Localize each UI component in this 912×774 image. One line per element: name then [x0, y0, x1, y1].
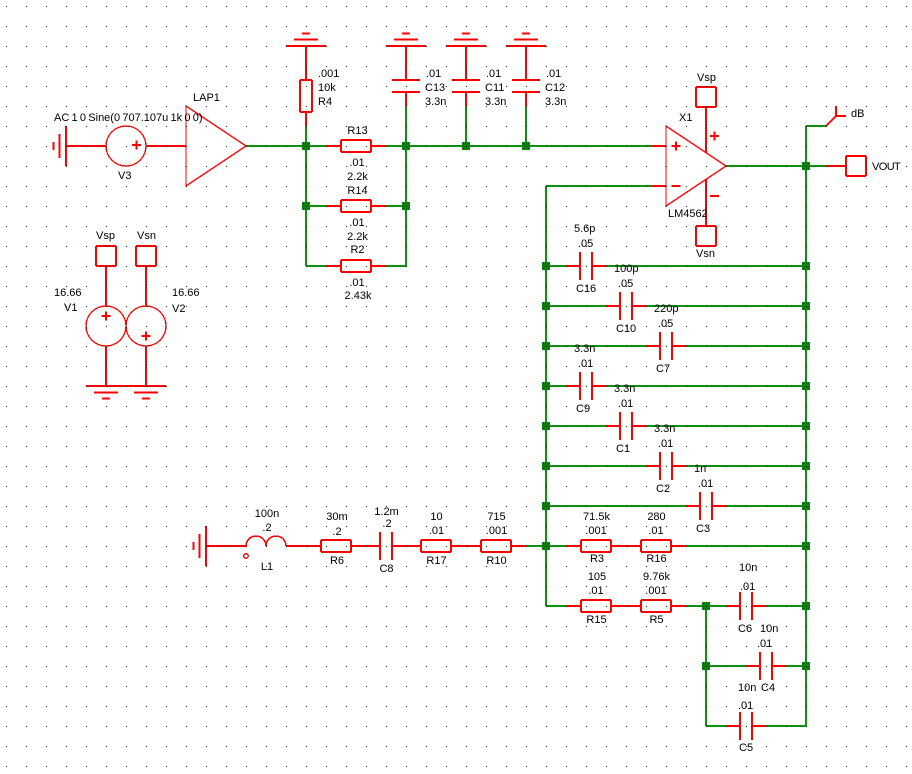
svg-text:V2: V2 [172, 303, 185, 315]
svg-text:.01: .01 [486, 68, 501, 80]
svg-text:R4: R4 [318, 96, 332, 108]
svg-text:C7: C7 [656, 363, 670, 375]
svg-text:LM4562: LM4562 [668, 208, 708, 220]
svg-text:3.3n: 3.3n [574, 343, 595, 355]
svg-text:.01: .01 [426, 68, 441, 80]
svg-text:715: 715 [487, 511, 505, 523]
svg-text:V1: V1 [64, 302, 77, 314]
svg-text:R16: R16 [646, 553, 666, 565]
svg-text:.05: .05 [618, 278, 633, 290]
svg-text:R3: R3 [590, 553, 604, 565]
svg-text:.001: .001 [486, 525, 507, 537]
svg-text:.05: .05 [578, 238, 593, 250]
svg-text:10k: 10k [318, 82, 336, 94]
svg-text:.01: .01 [740, 581, 755, 593]
svg-text:30m: 30m [326, 511, 347, 523]
svg-text:.01: .01 [349, 277, 364, 289]
svg-text:C3: C3 [696, 523, 710, 535]
svg-text:3.3n: 3.3n [425, 96, 446, 108]
svg-text:.2: .2 [382, 518, 391, 530]
svg-text:.01: .01 [588, 585, 603, 597]
svg-text:2.43k: 2.43k [345, 290, 372, 302]
svg-text:Vsn: Vsn [696, 248, 715, 260]
svg-text:C8: C8 [379, 563, 393, 575]
svg-text:L1: L1 [261, 561, 273, 573]
svg-text:.01: .01 [349, 217, 364, 229]
svg-text:dB: dB [851, 108, 864, 120]
svg-text:C5: C5 [739, 742, 753, 754]
svg-text:.01: .01 [546, 68, 561, 80]
svg-text:.01: .01 [648, 525, 663, 537]
svg-text:10: 10 [430, 511, 442, 523]
svg-text:3.3n: 3.3n [485, 96, 506, 108]
svg-text:.001: .001 [645, 585, 666, 597]
svg-text:.001: .001 [585, 525, 606, 537]
svg-text:1n: 1n [694, 463, 706, 475]
svg-text:.001: .001 [318, 68, 339, 80]
svg-text:.01: .01 [578, 358, 593, 370]
svg-text:C12: C12 [545, 82, 565, 94]
svg-text:105: 105 [588, 571, 606, 583]
svg-text:.01: .01 [738, 700, 753, 712]
svg-text:9.76k: 9.76k [643, 571, 670, 583]
svg-text:Vsp: Vsp [96, 230, 115, 242]
svg-text:R15: R15 [586, 614, 606, 626]
svg-text:2.2k: 2.2k [347, 171, 368, 183]
svg-text:3.3n: 3.3n [614, 383, 635, 395]
svg-text:.01: .01 [658, 438, 673, 450]
svg-text:100p: 100p [614, 263, 638, 275]
svg-text:10n: 10n [738, 682, 756, 694]
svg-text:.2: .2 [262, 522, 271, 534]
svg-text:10n: 10n [760, 623, 778, 635]
svg-text:C13: C13 [425, 82, 445, 94]
svg-text:LAP1: LAP1 [193, 92, 220, 104]
svg-text:R6: R6 [330, 555, 344, 567]
svg-text:AC 1 0 Sine(0 707.107u 1k 0 0): AC 1 0 Sine(0 707.107u 1k 0 0) [54, 112, 203, 124]
svg-text:C2: C2 [656, 483, 670, 495]
svg-text:C4: C4 [761, 682, 775, 694]
svg-text:X1: X1 [679, 112, 692, 124]
svg-text:C16: C16 [576, 283, 596, 295]
svg-text:1.2m: 1.2m [374, 506, 398, 518]
svg-text:C1: C1 [616, 443, 630, 455]
svg-text:.01: .01 [429, 525, 444, 537]
svg-text:R14: R14 [347, 185, 367, 197]
svg-text:.01: .01 [698, 478, 713, 490]
svg-text:R13: R13 [347, 125, 367, 137]
svg-text:16.66: 16.66 [54, 287, 82, 299]
svg-text:3.3n: 3.3n [545, 96, 566, 108]
svg-text:VOUT: VOUT [872, 161, 901, 173]
svg-text:3.3n: 3.3n [654, 423, 675, 435]
svg-text:R17: R17 [426, 555, 446, 567]
svg-text:.05: .05 [658, 318, 673, 330]
svg-text:5.6p: 5.6p [574, 223, 595, 235]
svg-text:R10: R10 [486, 555, 506, 567]
svg-text:2.2k: 2.2k [347, 231, 368, 243]
svg-text:V3: V3 [118, 170, 131, 182]
svg-text:.01: .01 [618, 398, 633, 410]
svg-text:Vsp: Vsp [697, 72, 716, 84]
svg-text:C6: C6 [738, 623, 752, 635]
svg-text:C11: C11 [485, 82, 504, 94]
svg-text:R2: R2 [350, 244, 364, 256]
svg-text:.01: .01 [757, 638, 772, 650]
svg-text:220p: 220p [654, 303, 678, 315]
svg-text:16.66: 16.66 [172, 287, 200, 299]
svg-text:10n: 10n [739, 562, 757, 574]
svg-text:.01: .01 [349, 157, 364, 169]
svg-text:280: 280 [647, 511, 665, 523]
svg-text:C10: C10 [616, 323, 636, 335]
svg-text:.2: .2 [332, 526, 341, 538]
svg-text:71.5k: 71.5k [583, 511, 610, 523]
svg-text:R5: R5 [649, 614, 663, 626]
svg-text:Vsn: Vsn [137, 230, 156, 242]
svg-text:100n: 100n [255, 508, 279, 520]
svg-text:C9: C9 [576, 403, 590, 415]
